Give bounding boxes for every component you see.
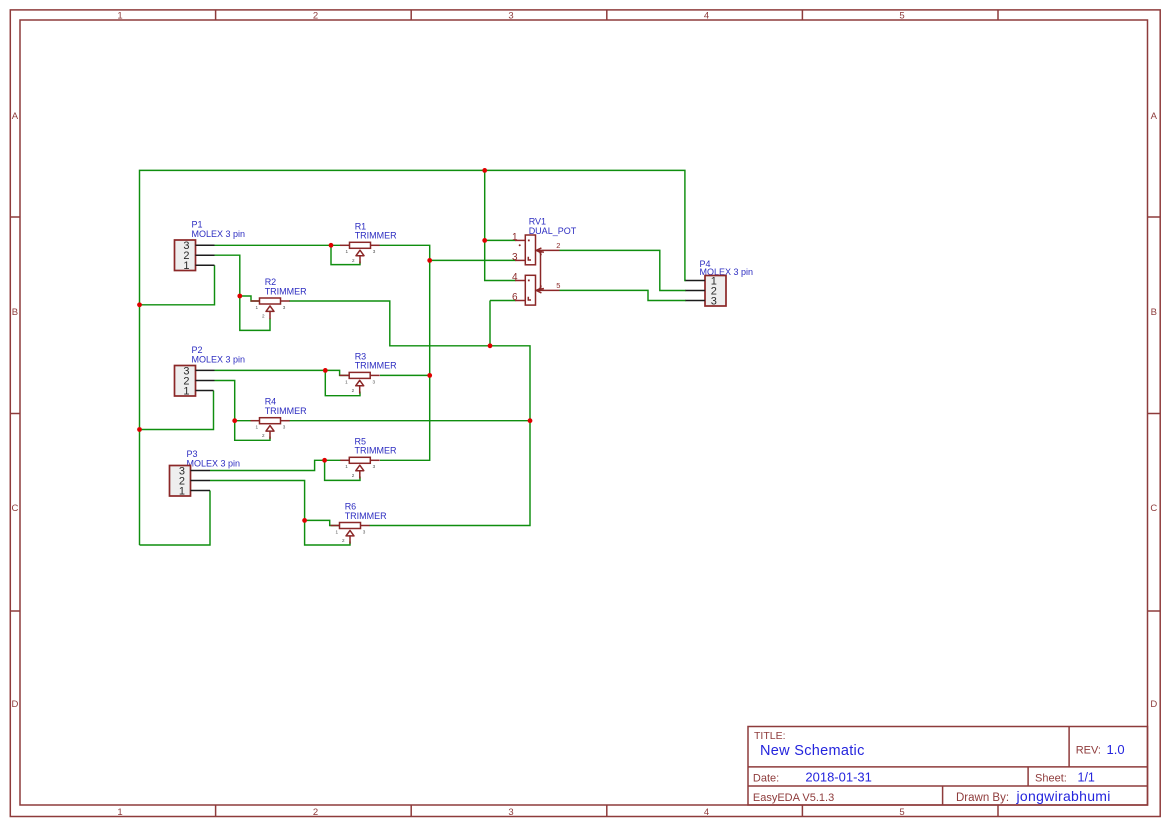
wiper arrow pin 2	[266, 306, 274, 312]
trimmer R2	[251, 277, 308, 319]
svg-text:2: 2	[352, 388, 355, 393]
junction R2 input	[237, 294, 242, 299]
svg-text:3: 3	[363, 529, 366, 534]
junction top-rail	[482, 168, 487, 173]
pin 1 stub	[331, 525, 340, 527]
svg-text:3: 3	[512, 252, 518, 263]
pin	[191, 480, 211, 482]
wire net R1.3 bus	[380, 245, 516, 460]
resistor body	[260, 418, 281, 424]
connector P3	[170, 449, 241, 497]
connector P4	[686, 259, 754, 307]
svg-text:3: 3	[508, 11, 513, 22]
wiper pin 2	[536, 248, 560, 253]
svg-text:MOLEX 3 pin: MOLEX 3 pin	[187, 459, 241, 469]
svg-text:5: 5	[556, 281, 560, 290]
pin 3 stub	[515, 259, 525, 261]
pin	[196, 390, 214, 392]
svg-text:1: 1	[345, 464, 348, 469]
svg-text:2: 2	[352, 473, 355, 478]
svg-text:B: B	[12, 307, 18, 318]
wire net common rail top	[140, 170, 687, 545]
svg-text:2: 2	[313, 11, 318, 22]
svg-text:3: 3	[283, 425, 286, 430]
trimmer R6	[331, 502, 388, 544]
junction R4 input	[232, 418, 237, 423]
svg-text:Sheet:: Sheet:	[1035, 773, 1067, 785]
svg-text:TRIMMER: TRIMMER	[265, 286, 307, 296]
gang link	[540, 251, 544, 289]
svg-text:1: 1	[335, 529, 338, 534]
pin	[686, 300, 706, 302]
svg-text:New Schematic: New Schematic	[760, 743, 865, 759]
svg-text:4: 4	[704, 807, 709, 818]
svg-text:3: 3	[283, 305, 286, 310]
connector body	[175, 240, 196, 271]
trimmer R4	[251, 397, 308, 439]
svg-text:C: C	[1150, 503, 1157, 514]
junction RV1 pin3 branch	[427, 258, 432, 263]
svg-text:TRIMMER: TRIMMER	[345, 511, 387, 521]
svg-text:1: 1	[183, 385, 189, 397]
svg-text:2018-01-31: 2018-01-31	[805, 770, 872, 785]
svg-text:2: 2	[262, 433, 265, 438]
junction R1 input	[329, 243, 334, 248]
resistor body	[340, 523, 361, 529]
svg-text:5: 5	[899, 11, 904, 22]
tiny marks	[528, 240, 530, 242]
svg-text:EasyEDA V5.1.3: EasyEDA V5.1.3	[753, 792, 834, 804]
svg-text:1: 1	[345, 249, 348, 254]
resistor body	[260, 298, 281, 304]
svg-text:D: D	[1150, 699, 1157, 710]
svg-text:REV:: REV:	[1076, 745, 1101, 757]
svg-text:P2: P2	[192, 345, 203, 355]
wire net P3.2 to R6	[210, 481, 350, 546]
potentiometer RV1	[512, 216, 577, 305]
svg-text:1/1: 1/1	[1078, 771, 1095, 785]
svg-text:3: 3	[508, 807, 513, 818]
junction RV1 pin6 branch	[488, 343, 493, 348]
junction P2 pin1	[137, 427, 142, 432]
pin	[196, 369, 215, 371]
junction R6 input	[302, 518, 307, 523]
svg-text:1: 1	[179, 485, 185, 497]
svg-text:C: C	[11, 503, 18, 514]
svg-text:2: 2	[262, 314, 265, 319]
wire net RV1.5 to P4.3	[560, 290, 687, 300]
connector P2	[175, 345, 246, 397]
pin	[196, 244, 215, 246]
svg-text:1: 1	[255, 425, 258, 430]
svg-text:2: 2	[313, 807, 318, 818]
resistor body	[349, 372, 370, 378]
svg-text:jongwirabhumi: jongwirabhumi	[1016, 788, 1111, 804]
pin 1 stub	[340, 459, 349, 461]
resistor body	[349, 457, 370, 463]
wiper pin 5	[536, 288, 560, 293]
connector P1	[175, 220, 246, 272]
junction R5 input	[322, 458, 327, 463]
svg-text:2: 2	[352, 258, 355, 263]
wiper arrow pin 2	[266, 426, 274, 432]
junction P1 pin1	[137, 302, 142, 307]
svg-text:TRIMMER: TRIMMER	[265, 406, 307, 416]
svg-text:3: 3	[373, 464, 376, 469]
svg-text:1: 1	[183, 260, 189, 272]
wiper arrow pin 2	[356, 465, 364, 471]
pin	[191, 490, 211, 492]
junction R4.3 branch	[528, 418, 533, 423]
pin 6 stub	[515, 300, 525, 302]
svg-text:1: 1	[117, 807, 122, 818]
svg-text:P3: P3	[187, 449, 198, 459]
svg-text:4: 4	[704, 11, 709, 22]
svg-text:3: 3	[711, 295, 717, 307]
pin 4 stub	[515, 280, 525, 282]
svg-text:RV1: RV1	[529, 216, 546, 226]
junction R3.3 branch	[427, 373, 432, 378]
svg-text:TITLE:: TITLE:	[754, 730, 786, 742]
resistor body	[350, 242, 371, 248]
svg-text:A: A	[1151, 111, 1158, 122]
svg-text:Drawn By:: Drawn By:	[956, 792, 1009, 804]
svg-text:2: 2	[342, 538, 345, 543]
wire net P1.3 to R1	[215, 245, 361, 264]
svg-text:Date:: Date:	[753, 773, 779, 785]
svg-text:4: 4	[512, 272, 518, 283]
pot body lower	[525, 275, 535, 305]
svg-text:6: 6	[512, 292, 518, 303]
pin 1 stub	[515, 239, 525, 241]
connector body	[705, 276, 726, 307]
junction R3 input	[323, 368, 328, 373]
wire net R2.3 bus	[289, 301, 530, 526]
wire net P2.3 to R3	[215, 370, 361, 395]
wiper arrow pin 2	[346, 530, 354, 536]
connector body	[175, 366, 196, 397]
wiper arrow pin 2	[356, 380, 364, 386]
svg-text:D: D	[11, 699, 18, 710]
pin 1 stub	[340, 244, 350, 246]
wire net P1.2 to R2	[215, 255, 271, 330]
svg-text:TRIMMER: TRIMMER	[355, 446, 397, 456]
trimmer R1	[340, 221, 397, 263]
pin	[196, 264, 215, 266]
svg-text:A: A	[12, 111, 19, 122]
svg-text:B: B	[1151, 307, 1157, 318]
connector body	[170, 466, 191, 497]
svg-text:1: 1	[345, 379, 348, 384]
wire net P3.3 to R5	[210, 460, 360, 480]
svg-text:3: 3	[373, 249, 376, 254]
svg-text:1: 1	[512, 232, 518, 243]
pot body upper	[525, 235, 535, 265]
pin 1 stub	[340, 374, 350, 376]
wiper arrow pin 2	[356, 250, 364, 256]
svg-text:1: 1	[255, 305, 258, 310]
svg-text:TRIMMER: TRIMMER	[355, 231, 397, 241]
wire net P2.2 to R4	[215, 381, 271, 441]
pin	[686, 290, 706, 292]
svg-text:TRIMMER: TRIMMER	[355, 361, 397, 371]
svg-text:MOLEX 3 pin: MOLEX 3 pin	[192, 355, 246, 365]
trimmer R3	[340, 351, 398, 393]
pin	[686, 280, 706, 282]
svg-text:MOLEX 3 pin: MOLEX 3 pin	[192, 229, 246, 239]
pin	[191, 470, 211, 472]
svg-text:1: 1	[117, 11, 122, 22]
title block	[748, 727, 1148, 806]
pin	[196, 254, 215, 256]
svg-text:1.0: 1.0	[1107, 742, 1125, 757]
svg-text:P1: P1	[192, 220, 203, 230]
trimmer R5	[340, 436, 397, 478]
svg-text:2: 2	[556, 241, 560, 250]
svg-text:3: 3	[373, 379, 376, 384]
pin	[196, 380, 215, 382]
wire net RV1.2 to P4.2	[560, 250, 687, 290]
junction RV1 pin1 branch	[482, 238, 487, 243]
svg-text:5: 5	[899, 807, 904, 818]
